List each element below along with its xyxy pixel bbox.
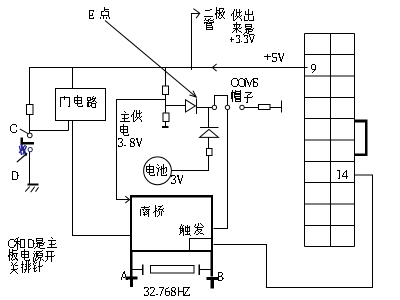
jumper cap COMS 帽子 over pins 1-2 bbox=[215, 96, 228, 105]
connector latch bracket bbox=[355, 121, 367, 155]
blue annotation scribble on header bbox=[20, 145, 27, 156]
label 电 bbox=[120, 124, 129, 136]
annotation arrow to 二极管 label bbox=[192, 9, 200, 70]
jumper pin 2 circle bbox=[225, 105, 229, 109]
wire gate circuit top pin to +5V rail bbox=[72, 68, 74, 89]
label 供出 bbox=[231, 9, 254, 21]
label E 点 bbox=[89, 7, 110, 19]
ground symbol at A bbox=[125, 277, 137, 288]
wire switch node to gate circuit pin bbox=[30, 130, 69, 132]
label D bbox=[12, 171, 19, 180]
wire resistor to ground stub bbox=[165, 122, 167, 127]
wire diode to resistor bbox=[208, 138, 210, 149]
label 二极 bbox=[204, 7, 225, 19]
ground symbol below D bbox=[26, 185, 39, 192]
label 主供 bbox=[120, 110, 142, 122]
battery 电池 3V circle bbox=[144, 157, 172, 185]
small spiral mark on header bbox=[28, 148, 32, 152]
resistor (upper, on +3.3V branch) bbox=[163, 86, 169, 95]
label 32.768HZ bbox=[144, 287, 190, 296]
wire gate circuit to southbridge bbox=[73, 121, 132, 236]
diode (vertical, battery isolation) bbox=[200, 128, 219, 138]
resistor (left, above switch C) bbox=[27, 105, 34, 115]
label 门电路 bbox=[60, 95, 97, 108]
switch C lever bbox=[20, 129, 28, 133]
diagonal tick at header bbox=[17, 154, 27, 162]
wire D pin down to ground bbox=[29, 152, 31, 184]
trigger pin notch inside southbridge bbox=[190, 239, 212, 251]
wire left drop from +5V rail to resistor bbox=[29, 68, 31, 105]
arrowhead into southbridge top-left bbox=[126, 196, 130, 202]
label 3V bbox=[171, 175, 183, 184]
wire trigger to connector pin 14 bbox=[214, 175, 373, 288]
wire resistor to battery bbox=[171, 156, 208, 171]
resistor (clear-CMOS branch) bbox=[259, 104, 271, 109]
wire +5V rail down to resistor R-mid-upper bbox=[165, 68, 167, 87]
wire diode anode bbox=[166, 105, 186, 107]
jumper pin 1 circle bbox=[212, 105, 216, 109]
label 电池 bbox=[146, 164, 167, 176]
label COMS bbox=[231, 78, 258, 87]
crystal right plate bbox=[198, 265, 200, 275]
wire +5V rail from node at (29,68) to connector pin 9 bbox=[29, 67, 308, 69]
note line 1: C和D是主 bbox=[8, 237, 57, 249]
crystal 32.768HZ body bbox=[150, 265, 194, 273]
wire resistor to diode node bbox=[165, 95, 167, 114]
wire main-supply 主供电 from +3.3V node down to southbridge bbox=[117, 100, 166, 200]
label 触发 bbox=[179, 223, 204, 236]
label pin 9 bbox=[311, 64, 316, 73]
gate circuit lower-left pin bbox=[68, 121, 70, 131]
jumper pin 3 circle bbox=[240, 105, 244, 109]
label 帽子 bbox=[231, 90, 253, 103]
wire diode cathode to jumper pin 1 bbox=[197, 107, 213, 109]
resistor (battery branch) bbox=[206, 148, 212, 155]
terminal bar end bbox=[281, 101, 283, 113]
wire jumper pin 3 to resistor bbox=[244, 107, 258, 109]
wire resistor to switch C contact bbox=[29, 115, 31, 134]
wire jumper node down to diode D2 bbox=[208, 108, 210, 128]
gate circuit box 门电路 bbox=[56, 89, 106, 121]
label 来是 bbox=[232, 22, 254, 35]
wire A to crystal plate bbox=[132, 269, 142, 271]
diode (horizontal, 二极管) bbox=[186, 99, 197, 115]
resistor (lower, to ground) bbox=[163, 113, 169, 122]
power-switch header bar (horizontal) bbox=[21, 142, 34, 145]
arrowhead on +5V rail pointing left bbox=[212, 64, 216, 71]
power-switch header bar (vertical) bbox=[21, 138, 24, 146]
label 3.8V bbox=[118, 138, 142, 147]
label pin 14 bbox=[337, 170, 348, 179]
label +3.3V bbox=[230, 35, 255, 43]
label C bbox=[10, 124, 17, 133]
wire crystal plate to B bbox=[200, 269, 211, 271]
crystal left plate bbox=[142, 265, 144, 275]
note line 2: 板电源开 bbox=[8, 249, 55, 262]
ground symbol at B bbox=[206, 277, 218, 289]
ground bar under lower resistor bbox=[162, 126, 169, 128]
label B bbox=[218, 272, 224, 281]
wire resistor to terminal bbox=[270, 107, 281, 109]
pointer line from E 点 to diode cathode bbox=[105, 21, 196, 98]
label 管 bbox=[204, 18, 214, 30]
southbridge box 南桥 bbox=[131, 196, 212, 251]
switch C contact circle bbox=[28, 133, 33, 138]
label +5V bbox=[264, 53, 284, 62]
southbridge pin A leg bbox=[130, 252, 132, 277]
label 南桥 bbox=[140, 205, 164, 217]
southbridge pin B leg bbox=[211, 252, 213, 277]
connector grid (power header, 2 columns x 10 rows) bbox=[305, 34, 355, 247]
note line 3: 关排针 bbox=[10, 261, 43, 274]
label A bbox=[121, 271, 128, 280]
wire jumper pin 2 down to southbridge trigger bbox=[214, 110, 228, 229]
